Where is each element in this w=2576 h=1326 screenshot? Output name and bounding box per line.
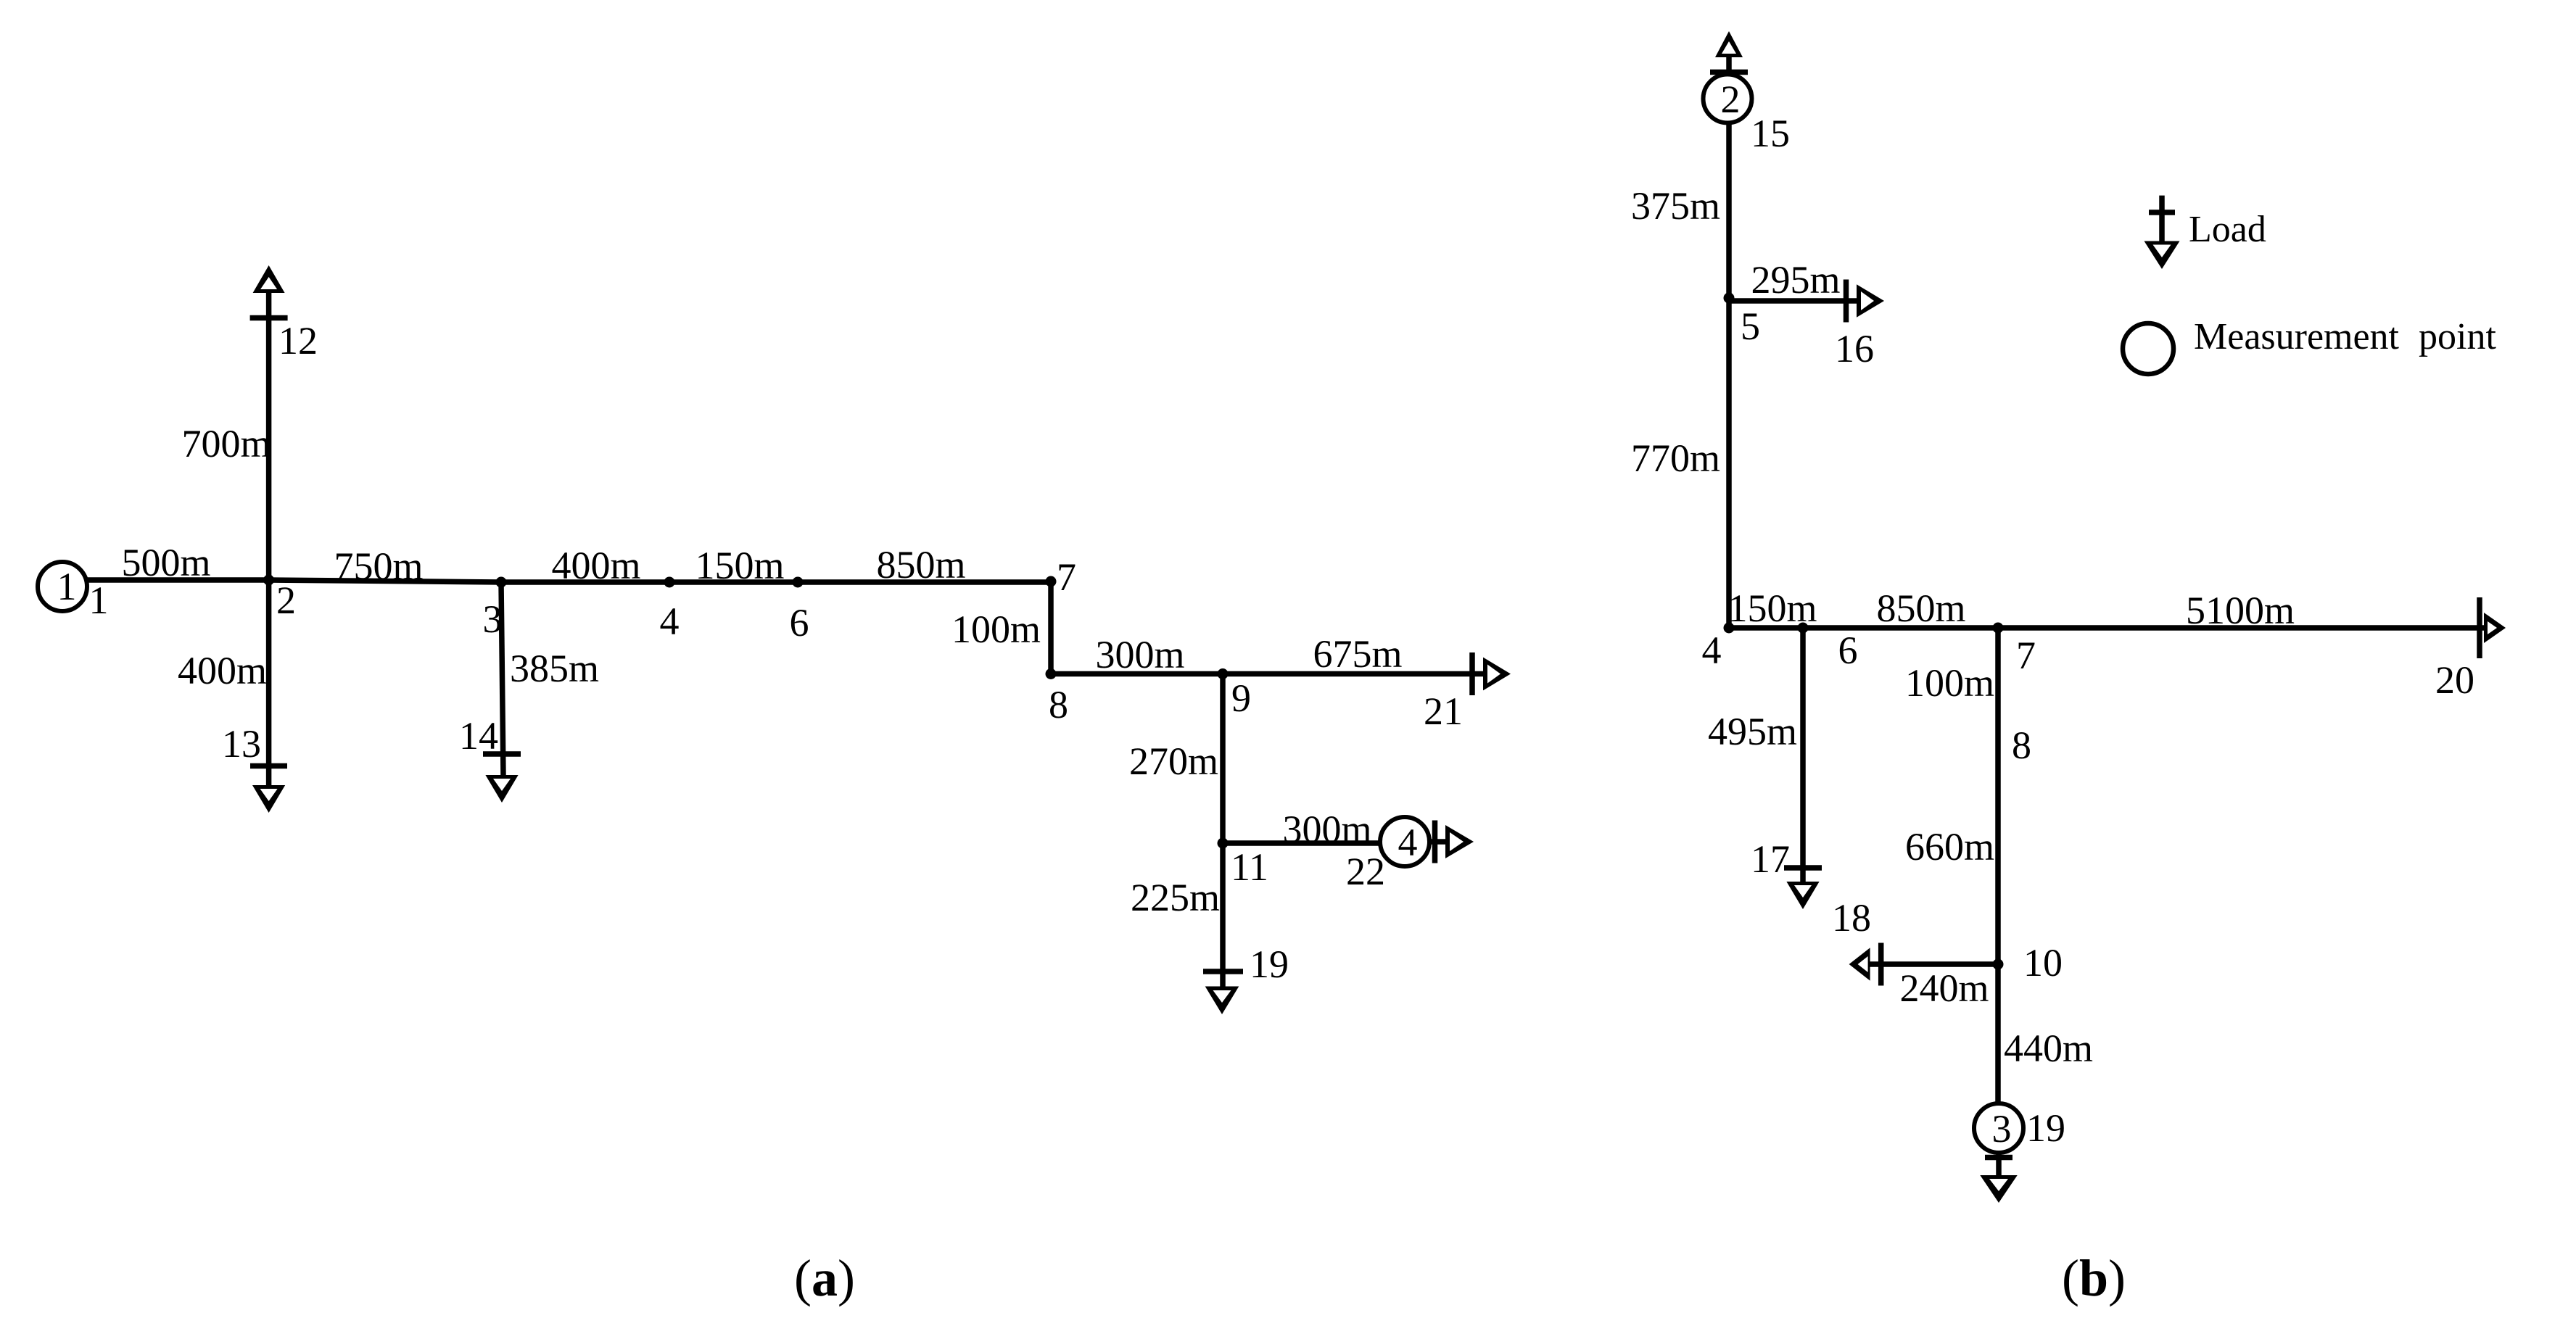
svg-text:19: 19: [1250, 942, 1289, 986]
svg-text:21: 21: [1424, 689, 1463, 733]
measurement point circle 4: [1380, 817, 1429, 866]
load 14 (bar + arrow down): [483, 751, 521, 757]
svg-text:675m: 675m: [1313, 632, 1402, 676]
svg-text:660m: 660m: [1905, 825, 1994, 869]
svg-text:8: 8: [1049, 683, 1068, 726]
wire 5-16 (295m): [1729, 298, 1857, 304]
node 6 junction dot: [793, 577, 804, 588]
wire 5-4 (770m): [1726, 298, 1732, 628]
load 16 (bar + arrow right): [1844, 280, 1849, 323]
node 10 junction dot: [1993, 959, 2004, 970]
wire 9-21 (675m): [1223, 671, 1484, 677]
load 19b (bar + arrow down, below circle 3): [1985, 1155, 2012, 1161]
svg-text:3: 3: [1992, 1107, 2012, 1151]
svg-text:270m: 270m: [1129, 739, 1218, 783]
node 2 junction dot: [263, 575, 274, 586]
svg-text:300m: 300m: [1282, 808, 1371, 851]
svg-text:11: 11: [1231, 845, 1268, 889]
svg-text:(b): (b): [2062, 1249, 2126, 1307]
svg-text:850m: 850m: [876, 543, 965, 587]
svg-text:9: 9: [1231, 676, 1251, 720]
load 15 (arrow up with bar): [1715, 31, 1743, 57]
svg-text:Measurement point: Measurement point: [2194, 316, 2496, 357]
legend measurement point circle: [2123, 323, 2173, 374]
svg-text:Load: Load: [2189, 209, 2266, 250]
svg-text:100m: 100m: [1905, 661, 1994, 705]
wire 10-18 (240m, left): [1869, 961, 1998, 967]
svg-text:700m: 700m: [181, 422, 271, 465]
svg-text:850m: 850m: [1876, 587, 1965, 630]
svg-text:22: 22: [1346, 850, 1385, 893]
svg-text:240m: 240m: [1899, 966, 1989, 1010]
wire 6-17 (495m, down): [1800, 628, 1806, 882]
svg-text:2: 2: [276, 579, 296, 622]
wire circle4 to load 22: [1429, 839, 1446, 845]
svg-text:400m: 400m: [178, 649, 267, 692]
wire 4-6-7-20 main feeder b: [1729, 625, 2484, 631]
wire 7-8 (100m, down): [1048, 581, 1054, 674]
wire 8-9 (300m): [1051, 671, 1223, 677]
wire 3-14 (385m, down): [501, 582, 503, 776]
svg-text:4: 4: [660, 600, 680, 643]
svg-text:15: 15: [1751, 112, 1790, 155]
svg-text:150m: 150m: [695, 544, 784, 587]
node 3 junction dot: [496, 577, 507, 588]
svg-text:17: 17: [1751, 837, 1790, 881]
svg-text:375m: 375m: [1631, 184, 1720, 228]
node 4b junction dot: [1724, 623, 1735, 634]
load 19 (bar + arrow down): [1203, 969, 1243, 974]
svg-text:7: 7: [2016, 634, 2036, 677]
load 21 (bar + arrow right): [1469, 652, 1475, 695]
wire 15-5 (375m): [1726, 123, 1732, 299]
svg-text:495m: 495m: [1708, 710, 1797, 753]
measurement point circle 2: [1704, 75, 1752, 123]
wire 1-2 (500m): [86, 577, 269, 583]
svg-text:5: 5: [1741, 304, 1760, 348]
load 20 (bar + arrow right): [2477, 597, 2482, 658]
svg-text:18: 18: [1832, 896, 1871, 940]
svg-text:6: 6: [1838, 629, 1858, 672]
wire 2-13 (400m, down): [266, 580, 272, 786]
svg-text:300m: 300m: [1095, 633, 1184, 676]
load 13 (bar + arrow down): [250, 763, 287, 769]
svg-text:7: 7: [1057, 555, 1076, 599]
node 6b junction dot: [1798, 623, 1809, 634]
node 7b junction dot: [1993, 623, 2004, 634]
svg-text:750m: 750m: [334, 544, 423, 588]
svg-text:8: 8: [2012, 724, 2031, 767]
svg-text:(a): (a): [794, 1249, 855, 1307]
wire 2-12 (700m, up): [266, 291, 272, 580]
svg-text:10: 10: [2023, 941, 2063, 985]
load 12 (arrow up with bar): [253, 265, 285, 293]
node 7 corner dot: [1046, 576, 1057, 587]
measurement point circle 1 (source node): [38, 562, 87, 611]
svg-text:2: 2: [1721, 78, 1741, 121]
node 5 junction dot: [1724, 293, 1735, 304]
wire 11-22 (300m): [1223, 840, 1380, 846]
svg-text:19: 19: [2026, 1106, 2065, 1150]
wire 7-8-10 (down): [1995, 628, 2001, 1103]
measurement point circle 3: [1974, 1103, 2023, 1153]
svg-text:770m: 770m: [1631, 436, 1720, 480]
svg-text:400m: 400m: [551, 544, 640, 587]
wire 2-3-4-6-7 main feeder: [269, 580, 1051, 582]
svg-text:440m: 440m: [2004, 1027, 2093, 1070]
svg-text:5100m: 5100m: [2186, 589, 2295, 632]
node 11 junction dot: [1218, 838, 1229, 849]
node 4 junction dot: [664, 577, 675, 588]
node 8 corner dot: [1046, 668, 1057, 679]
svg-text:12: 12: [278, 319, 318, 362]
node 9 junction dot: [1218, 668, 1229, 679]
load 17 (bar + arrow down): [1784, 865, 1822, 871]
svg-text:1: 1: [57, 565, 77, 608]
svg-text:295m: 295m: [1751, 258, 1840, 302]
svg-text:4: 4: [1702, 629, 1722, 672]
svg-text:14: 14: [459, 714, 498, 758]
load 18 (bar + arrow left): [1878, 943, 1884, 986]
load 22 (bar + arrow right, after circle 4): [1432, 821, 1438, 863]
svg-text:500m: 500m: [121, 541, 210, 584]
svg-text:1: 1: [89, 579, 109, 622]
svg-text:4: 4: [1398, 821, 1418, 864]
wire 9-11 (270m, down): [1220, 674, 1226, 844]
svg-text:16: 16: [1835, 327, 1874, 370]
wire 11-19 (225m, down): [1220, 843, 1226, 987]
svg-text:225m: 225m: [1131, 876, 1220, 919]
svg-text:13: 13: [222, 722, 261, 766]
svg-text:6: 6: [790, 601, 809, 645]
svg-text:100m: 100m: [951, 608, 1041, 651]
svg-text:20: 20: [2435, 658, 2474, 702]
svg-text:385m: 385m: [510, 647, 599, 690]
legend load symbol: [2159, 196, 2165, 241]
